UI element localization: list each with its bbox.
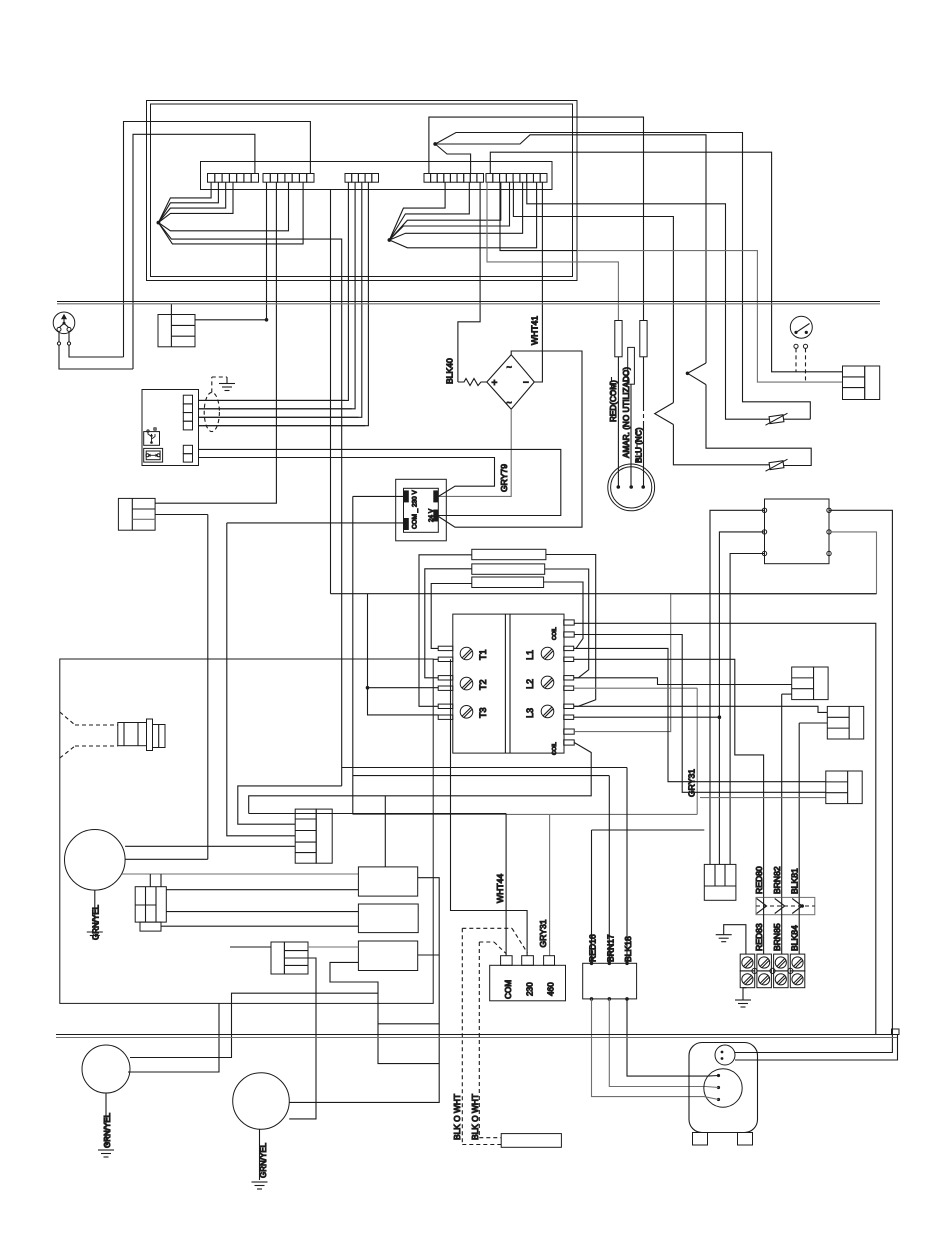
svg-text:~: ~ [507,362,512,372]
svg-text:RED16: RED16 [588,934,598,962]
svg-text:L1: L1 [525,650,535,660]
svg-text:T3: T3 [478,707,488,718]
svg-text:AMAR. (NO UTILIZADO): AMAR. (NO UTILIZADO) [622,367,631,458]
svg-text:T1: T1 [478,649,488,660]
svg-text:COM: COM [504,980,513,999]
svg-text:RED80: RED80 [754,866,764,894]
svg-text:BLK O WHT: BLK O WHT [452,1094,462,1140]
svg-text:GRY79: GRY79 [499,464,509,492]
svg-text:BRN17: BRN17 [606,934,616,962]
svg-text:WHT44: WHT44 [495,874,505,903]
svg-text:RED(COM): RED(COM) [609,380,618,422]
svg-text:BLK81: BLK81 [790,868,800,894]
svg-text:COM _ 230 V: COM _ 230 V [412,490,419,529]
svg-text:BLK40: BLK40 [445,358,455,384]
svg-text:BLU (NC): BLU (NC) [635,427,644,463]
svg-text:−: − [523,378,529,389]
svg-text:460: 460 [547,982,556,996]
svg-text:BRN85: BRN85 [772,923,782,951]
svg-text:RED83: RED83 [754,923,764,951]
svg-text:GRN/YEL: GRN/YEL [92,904,101,940]
svg-text:BRN82: BRN82 [772,866,782,894]
svg-text:230: 230 [526,982,535,996]
svg-text:COIL: COIL [552,742,558,755]
svg-text:WHT41: WHT41 [530,316,540,345]
svg-text:GRN/YEL: GRN/YEL [259,1142,268,1178]
svg-text:BLK O WHT: BLK O WHT [470,1094,480,1140]
svg-text:GRN/YEL: GRN/YEL [103,1112,112,1148]
svg-text:COIL: COIL [552,627,558,640]
svg-text:GRY31: GRY31 [538,919,548,947]
svg-text:+: + [492,378,498,389]
svg-text:L3: L3 [525,708,535,718]
svg-text:BLK84: BLK84 [790,925,800,951]
svg-text:~: ~ [507,398,512,408]
svg-text:BLK18: BLK18 [623,936,633,962]
svg-text:L2: L2 [525,679,535,689]
svg-text:T2: T2 [478,679,488,690]
